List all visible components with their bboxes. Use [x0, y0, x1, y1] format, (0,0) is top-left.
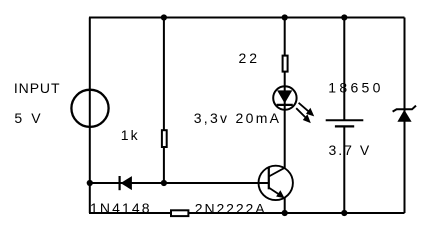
node: junction top battery	[341, 14, 347, 20]
wire: top rail	[89, 17, 405, 19]
wire: left vertical (input branch)	[89, 18, 91, 214]
svg-text:3,3v 20mA: 3,3v 20mA	[194, 110, 282, 126]
transistor Q1 2N2222A	[259, 166, 293, 200]
wire: battery branch upper	[343, 18, 345, 121]
LED emission arrow 1	[299, 103, 311, 113]
wire: middle horizontal (base wire)	[90, 182, 269, 184]
svg-text:3.7 V: 3.7 V	[329, 142, 372, 158]
resistor R1 1k	[162, 130, 167, 147]
wire: 1k branch vertical	[163, 18, 165, 184]
wire: battery branch lower	[343, 126, 345, 213]
battery B1 18650	[326, 120, 364, 126]
wire: right vertical (zener branch)	[404, 18, 406, 214]
svg-text:2N2222A: 2N2222A	[195, 200, 267, 216]
wire: emitter to bottom rail	[284, 197, 286, 213]
zener diode D3	[393, 106, 416, 122]
resistor R2 22	[283, 56, 288, 72]
node: junction top LED	[282, 14, 288, 20]
svg-text:22: 22	[239, 50, 261, 66]
svg-text:5 V: 5 V	[14, 110, 43, 126]
wire: bottom rail	[89, 212, 405, 214]
node: junction left base wire	[87, 180, 93, 186]
node: junction 1k base wire	[161, 180, 167, 186]
voltage source V1	[71, 90, 108, 127]
svg-text:INPUT: INPUT	[14, 80, 61, 96]
svg-text:1k: 1k	[121, 127, 140, 143]
resistor R3 (bottom)	[171, 210, 188, 216]
node: junction top 1k	[161, 14, 167, 20]
diode D1 1N4148	[120, 176, 132, 190]
svg-text:18650: 18650	[328, 80, 383, 96]
svg-text:1N4148: 1N4148	[90, 200, 152, 216]
wire: LED branch vertical	[284, 18, 286, 169]
node: junction battery bottom	[341, 210, 347, 216]
LED D2	[273, 86, 314, 123]
node: junction emitter bottom	[282, 210, 288, 216]
LED emission arrow 2	[296, 108, 307, 119]
